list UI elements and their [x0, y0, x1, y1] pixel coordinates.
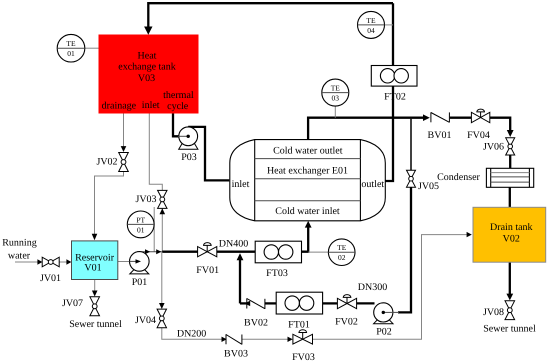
vessel heat exchanger E01	[230, 140, 385, 221]
arrow into E01 bottom	[305, 221, 312, 228]
svg-text:01: 01	[137, 225, 145, 234]
wire JV04 to DN200 line	[162, 328, 222, 340]
wire FV02 to P02	[356, 302, 374, 304]
arrow into JV08	[506, 294, 513, 301]
svg-text:Heat: Heat	[138, 50, 157, 61]
arrow into main line junction	[156, 249, 161, 254]
wire condenser to drain tank	[509, 187, 511, 207]
wire FT03 to E01 bottom riser	[302, 227, 309, 252]
svg-text:cycle: cycle	[167, 101, 189, 112]
instrument TE04	[358, 11, 394, 38]
svg-text:BV01: BV01	[428, 130, 452, 141]
valve JV08	[483, 301, 515, 320]
valve JV05	[407, 170, 440, 192]
wire running water inlet	[15, 261, 38, 263]
arrow on main line after P01	[145, 249, 150, 254]
svg-text:TE: TE	[337, 243, 347, 252]
svg-text:FV01: FV01	[196, 265, 219, 276]
svg-text:04: 04	[367, 26, 375, 35]
svg-text:FV03: FV03	[292, 352, 315, 363]
svg-text:JV05: JV05	[418, 181, 439, 192]
arrow into JV02	[121, 146, 127, 152]
arrow into reservoir top	[92, 234, 98, 240]
pump P02	[374, 303, 399, 338]
wire JV03 to main line junction	[161, 208, 163, 252]
svg-text:FV02: FV02	[335, 317, 358, 328]
valve FV02	[335, 282, 387, 328]
svg-text:V01: V01	[84, 263, 101, 274]
svg-text:JV03: JV03	[135, 194, 156, 205]
svg-text:V02: V02	[503, 233, 520, 244]
wire drainage stub from V03 to JV02	[123, 114, 125, 147]
svg-text:DN300: DN300	[358, 282, 387, 293]
svg-text:Drain tank: Drain tank	[490, 222, 533, 233]
svg-text:JV01: JV01	[40, 273, 61, 284]
wire FT01 to FV02	[323, 302, 338, 304]
instrument TE02	[328, 239, 355, 266]
arrow into V03 top	[144, 27, 152, 35]
valve FV04	[467, 109, 490, 141]
wire JV02 to reservoir top	[95, 172, 124, 235]
svg-text:Running: Running	[2, 238, 36, 249]
svg-text:BV02: BV02	[244, 318, 268, 329]
svg-text:02: 02	[338, 253, 346, 262]
svg-text:JV08: JV08	[483, 307, 504, 318]
wire hot outlet header y=117.7	[308, 118, 423, 140]
wire top pipe from FT02 line to heat exchange tank	[148, 3, 393, 27]
svg-text:TE: TE	[366, 16, 376, 25]
wire drain tank to JV08	[509, 262, 511, 294]
wire FV03 to drain tank	[313, 235, 467, 340]
wire FV04 to JV06 elbow	[490, 118, 511, 131]
svg-text:FT02: FT02	[384, 92, 406, 103]
wire reservoir to P01 suction	[118, 261, 139, 263]
wire BV02 to FT01	[265, 302, 276, 304]
arrow riser joining main line	[237, 253, 244, 260]
svg-text:inlet: inlet	[232, 179, 250, 190]
valve JV03	[135, 190, 167, 208]
svg-text:01: 01	[67, 49, 75, 58]
svg-text:TE: TE	[331, 84, 341, 93]
wire BV02 elbow horizontal	[240, 302, 247, 304]
svg-text:drainage: drainage	[102, 100, 137, 111]
wire stub to TE02	[308, 251, 328, 253]
svg-text:JV06: JV06	[483, 142, 504, 153]
arrow into JV01	[37, 259, 42, 264]
condenser	[437, 168, 534, 187]
svg-text:JV02: JV02	[96, 157, 117, 168]
svg-text:Sewer tunnel: Sewer tunnel	[69, 319, 122, 330]
svg-text:JV04: JV04	[135, 315, 156, 326]
wire JV06 to condenser	[509, 155, 511, 168]
svg-text:FT01: FT01	[288, 319, 310, 330]
arrow toward riser at BV02	[244, 301, 250, 306]
svg-text:P03: P03	[181, 152, 197, 163]
svg-text:BV03: BV03	[224, 349, 248, 360]
valve FV01	[196, 238, 248, 276]
wire BV01 to FV04 segment	[450, 117, 472, 119]
instrument TE01	[57, 34, 98, 62]
pump P01	[130, 252, 150, 288]
arrow into drain tank left	[467, 232, 472, 237]
svg-text:JV07: JV07	[62, 298, 83, 309]
instrument TE03	[322, 79, 349, 118]
arrow into reservoir left	[66, 259, 71, 264]
svg-text:Condenser: Condenser	[437, 172, 480, 183]
svg-text:TE: TE	[66, 39, 76, 48]
wire JV01 to reservoir	[59, 261, 66, 263]
valve BV02	[244, 298, 268, 328]
arrow toward BV01	[423, 114, 430, 121]
wire BV02 riser up to main line	[239, 258, 241, 304]
svg-text:water: water	[8, 251, 31, 262]
valve JV02	[96, 153, 128, 172]
wire JV05 down to P02 suction	[398, 187, 411, 312]
wire PT01 stem	[153, 207, 155, 252]
svg-text:03: 03	[332, 94, 340, 103]
wire main supply line junction to FV01	[162, 251, 198, 253]
svg-text:DN200: DN200	[177, 328, 206, 339]
arrow into JV06	[507, 130, 514, 137]
wire JV04 branch down from junction	[161, 252, 163, 304]
tank drain tank V02	[473, 207, 546, 334]
svg-text:DN400: DN400	[219, 238, 248, 249]
valve JV06	[483, 138, 515, 155]
valve FV03	[177, 328, 315, 363]
wire FT02 vertical line and outlet stub to E01	[385, 3, 393, 181]
arrow into JV04	[159, 303, 165, 309]
arrow up into JV03	[160, 208, 166, 214]
valve BV01	[428, 112, 452, 141]
svg-text:exchange tank: exchange tank	[118, 61, 175, 72]
wire JV05 branch from header	[410, 118, 412, 171]
tank heat exchange tank V03	[99, 35, 199, 114]
svg-text:Sewer tunnel: Sewer tunnel	[483, 323, 536, 334]
svg-text:outlet: outlet	[361, 179, 384, 190]
svg-text:V03: V03	[138, 73, 155, 84]
wire P03 discharge to E01 inlet	[188, 127, 229, 180]
flowmeter FT02	[371, 66, 417, 103]
svg-text:Heat exchanger E01: Heat exchanger E01	[267, 165, 348, 176]
valve JV04	[135, 309, 167, 328]
arrow toward BV03	[222, 337, 227, 342]
svg-text:P02: P02	[376, 327, 392, 338]
svg-text:Cold water outlet: Cold water outlet	[273, 145, 343, 156]
arrow into JV07	[92, 291, 98, 297]
valve BV03	[224, 334, 248, 359]
svg-text:FV04: FV04	[467, 130, 490, 141]
svg-text:P01: P01	[132, 277, 148, 288]
wire FV01 to FT03	[217, 251, 256, 253]
instrument PT01	[127, 211, 154, 238]
pump P03	[178, 127, 198, 163]
svg-text:FT03: FT03	[266, 268, 288, 279]
wire inlet stub from V03 down to JV03	[149, 114, 162, 191]
wire thermal cycle pipe V03 to P03	[173, 114, 179, 137]
flowmeter FT03	[255, 241, 301, 279]
tank reservoir V01	[2, 238, 122, 331]
svg-text:Cold water inlet: Cold water inlet	[275, 206, 340, 217]
wire BV03 to FV03	[242, 338, 288, 340]
svg-text:inlet: inlet	[142, 100, 160, 111]
flowmeter FT01	[276, 292, 322, 330]
valve JV01	[40, 257, 61, 284]
valve JV07	[62, 297, 100, 316]
arrow into FV03	[288, 337, 293, 342]
wire P01 top to junction (main line thin part)	[137, 251, 163, 253]
svg-text:PT: PT	[136, 215, 145, 224]
svg-text:thermal: thermal	[163, 90, 194, 101]
wire reservoir bottom to JV07	[94, 280, 96, 291]
